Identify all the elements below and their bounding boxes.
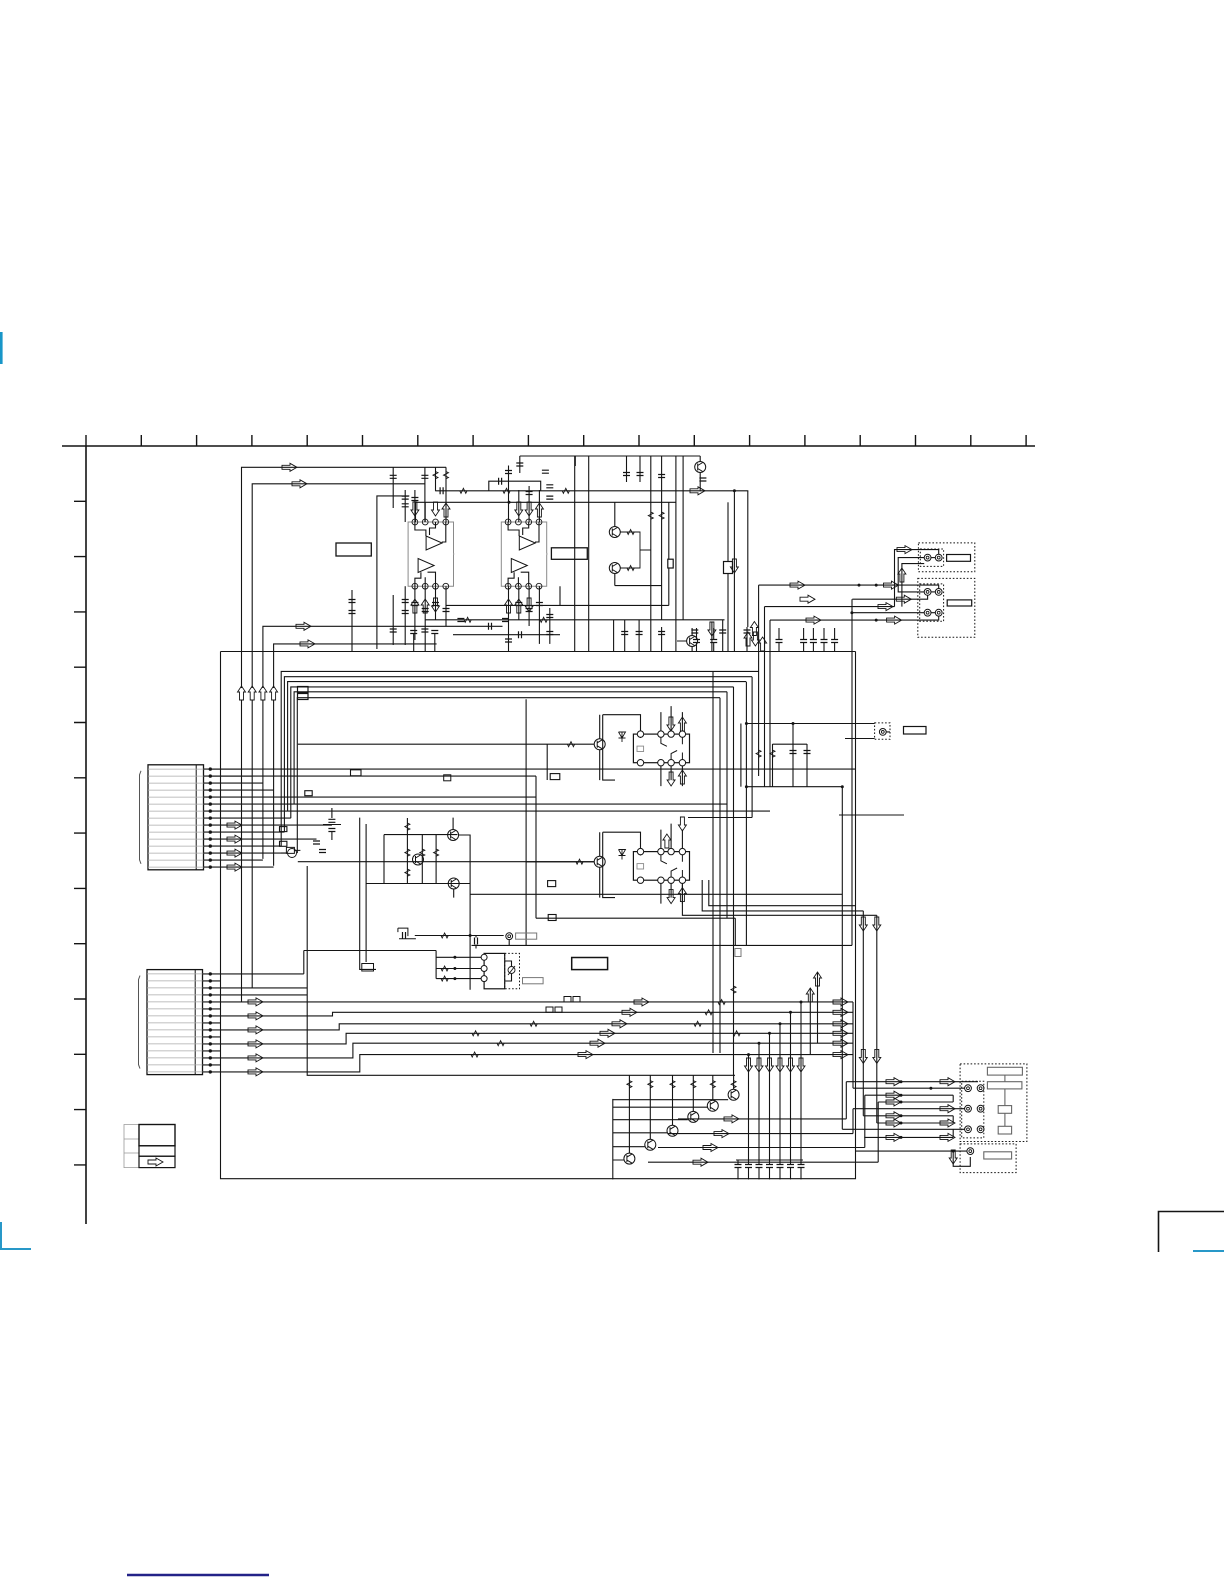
fuse FB1: [298, 687, 309, 693]
transistor Q102: [609, 527, 620, 538]
Qb6 resistor: [731, 1081, 736, 1088]
DRV2 diode: [619, 850, 626, 860]
wire bus4: [291, 687, 734, 818]
wire riser13: [404, 586, 406, 645]
U201 pin top 4: [536, 519, 542, 525]
arrow u c2: [759, 637, 767, 651]
label near CN301: [305, 791, 312, 796]
capacitor Cb18: [502, 619, 509, 622]
pin link CN102b: [931, 612, 935, 614]
label L4: [351, 770, 362, 776]
wire netD v: [862, 911, 864, 1116]
wire riser7: [424, 502, 426, 522]
stair cluster dots: [800, 1001, 803, 1004]
CN501 feeder 864.8: [864, 1095, 866, 1147]
CN501 row 1095.2: [865, 1094, 953, 1096]
feedback loop C: [489, 481, 541, 491]
wire riser11: [538, 490, 540, 522]
DRV2 arrows: [663, 834, 671, 848]
revision table row3: [139, 1156, 175, 1167]
op-amp U201b: [511, 559, 527, 573]
wire VCC top: [520, 455, 700, 457]
resistor R111: [627, 566, 634, 571]
U201 pin bottom 1: [505, 583, 511, 589]
relay DRV1 pin t2: [658, 731, 664, 737]
capacitor C156: [658, 632, 665, 635]
DRV1 diode: [619, 732, 626, 742]
IC IC301 dashed: [505, 953, 520, 988]
wire riser20: [528, 586, 530, 626]
arrow up netC: [898, 568, 906, 582]
capacitor Cbus4: [800, 640, 807, 643]
CN502 wire: [856, 1151, 971, 1166]
CN103 label: [904, 727, 927, 735]
riser up2: [817, 972, 819, 1043]
capacitor Cbus6: [821, 640, 828, 643]
transistor Qb5: [707, 1100, 718, 1111]
wire IN2: [252, 484, 425, 688]
IC301 feeder: [435, 951, 437, 979]
cap bank top bus: [736, 1159, 803, 1161]
IC301 pin3: [481, 976, 487, 982]
capacitor Cb3: [402, 600, 409, 603]
CN501 pin L3: [965, 1126, 972, 1133]
arrow d bus1: [751, 632, 759, 646]
arrow IN1: [282, 463, 297, 471]
CN302 pin dots: [209, 972, 212, 975]
wire mos: [281, 852, 287, 854]
resistor R146: [464, 617, 471, 622]
circuit vert r2: [421, 835, 423, 884]
CN501 row 1137.4: [864, 1136, 953, 1138]
capacitor C155: [636, 632, 643, 635]
arrows at U101 pins: [411, 502, 419, 516]
trunk 746: [745, 682, 747, 946]
wire column C: [668, 502, 670, 559]
wire riser8: [508, 466, 510, 523]
resistor in3: [441, 976, 448, 981]
wire Q102 collector loop: [620, 532, 651, 568]
wire riser9: [518, 490, 520, 522]
ferrite beads row1: [564, 997, 571, 1003]
registration mark cyan bottom-right: [1193, 1250, 1224, 1252]
resistor R147: [540, 617, 547, 622]
arrow row620: [887, 616, 902, 624]
Qb4 resistor: [691, 1081, 696, 1088]
relay DRV1 pin t3: [668, 731, 674, 737]
arrow up IN3: [259, 686, 267, 700]
capacitor Cb11: [505, 639, 512, 642]
wire CL1: [323, 808, 341, 840]
cap bank caps: [735, 1165, 742, 1168]
stair arrow R6: [833, 1051, 848, 1059]
connector CN501 inner: [962, 1081, 984, 1138]
label near CN301 b: [280, 827, 287, 832]
DRV1 loop box: [603, 715, 641, 780]
op-amp U101b: [418, 559, 434, 573]
stair arrows mid: [634, 998, 649, 1006]
arrow u c1: [750, 622, 758, 636]
CN302 arrow 5: [248, 1054, 263, 1062]
DRV2 input wire: [298, 861, 594, 863]
CN501 feeder 878: [877, 1102, 879, 1162]
CN302 arrow 3: [248, 1026, 263, 1034]
registration mark black bottom-right: [1159, 1212, 1224, 1253]
wire vertical IN1 lower: [241, 700, 243, 1002]
arrow netA: [897, 546, 912, 554]
op-amp U101a: [426, 536, 442, 550]
relay DRV1 block: [633, 734, 689, 763]
wire bus6: [297, 698, 720, 853]
trunk 713: [712, 671, 714, 1053]
registration mark cyan bottom-left: [1, 1222, 31, 1249]
capacitor Ct4: [402, 504, 409, 507]
relay DRV1 pin b2: [658, 760, 664, 766]
caps CL1: [328, 819, 335, 822]
CN501 feeder 853: [852, 1109, 854, 1134]
transistor Q303: [448, 878, 459, 889]
arrow a5: [690, 487, 705, 495]
Qb3 resistor: [670, 1081, 675, 1088]
capacitor C146: [489, 623, 492, 630]
arrows at U201 pins: [515, 502, 523, 516]
arrows row585: [884, 581, 899, 589]
connector CN501 box: [960, 1064, 1027, 1142]
dots trunk: [745, 722, 748, 725]
wire drv2 base: [526, 861, 594, 863]
wire IN1: [242, 467, 447, 688]
trunk bus y786: [746, 786, 842, 788]
registration mark cyan left: [0, 332, 3, 364]
relay DRV2 block: [633, 852, 689, 881]
arrow up IN2: [248, 686, 256, 700]
wire right col 734: [733, 491, 735, 652]
IC301 inner wire: [505, 961, 512, 981]
frame left v1: [360, 818, 376, 970]
dot row612: [850, 611, 853, 614]
label L1: [550, 774, 560, 780]
wire riser21: [538, 586, 540, 644]
label reg1: [516, 933, 537, 939]
relay DRV1 pin b3: [668, 760, 674, 766]
CN501 arrows a: [886, 1078, 901, 1086]
wire row 606.6: [765, 606, 895, 608]
fuse FB2: [298, 694, 309, 700]
DRV2 input resistor: [576, 859, 583, 864]
wire below ICs h1: [425, 619, 700, 621]
Qb2 resistor: [648, 1081, 653, 1088]
dot a: [733, 489, 736, 492]
net y935: [415, 935, 504, 937]
CN302 wire r2: [221, 987, 308, 989]
capacitor C143: [440, 487, 443, 494]
riser cap 661: [661, 456, 663, 501]
capacitor Cb12: [515, 603, 522, 606]
U101 pin bottom 3: [433, 583, 439, 589]
wire net B into CN101: [898, 558, 924, 593]
arrow d Q104: [708, 622, 716, 636]
capacitor Cb2: [421, 629, 428, 632]
trunk v 772: [772, 744, 774, 787]
DRV1 collector wire: [599, 715, 601, 780]
transistor Qb1: [624, 1153, 635, 1164]
CN302 signal 6: [221, 1055, 854, 1072]
wire top h4: [416, 501, 676, 503]
bus below DRV2: [536, 917, 735, 919]
net y945: [472, 944, 853, 946]
revision table arrow: [148, 1158, 163, 1166]
wire vert 747: [746, 627, 748, 652]
wire v536: [535, 776, 537, 918]
op-amp IC U101 body: [408, 522, 454, 586]
wire riser22: [549, 608, 551, 644]
wire vert 590: [588, 456, 590, 652]
label box left of U101: [336, 543, 371, 556]
wire riser12: [392, 595, 394, 645]
CN501 row 1108.7: [853, 1108, 965, 1110]
resistor R110: [627, 530, 634, 535]
border ruler top ticks: [86, 435, 1026, 446]
capacitor C151: [431, 631, 438, 634]
Qb2 emitter wire: [649, 1075, 651, 1139]
component box K1: [668, 559, 673, 568]
wire row 592.5: [898, 591, 924, 593]
connector CN301 shell: [140, 771, 142, 864]
wire vertical IN2 lower: [251, 700, 253, 988]
component box K3: [735, 949, 741, 957]
U101 pin bottom 1: [412, 583, 418, 589]
transistor Q104: [687, 636, 698, 647]
CN502 arrow: [949, 1150, 957, 1164]
capacitor Cb10: [349, 611, 356, 614]
single pin connector CN103: [875, 723, 890, 739]
resistor R142: [503, 488, 510, 493]
bus bottom of top section: [221, 651, 856, 653]
relay DRV2 pin t1: [637, 848, 643, 854]
wire K2: [727, 502, 729, 561]
CN103 wire: [845, 732, 890, 739]
wire net A into CN101: [895, 550, 939, 607]
wire drv2 riser: [525, 699, 527, 945]
relay DRV2 pin t3: [668, 848, 674, 854]
capacitor Cb1: [390, 629, 397, 632]
capacitor Cbus1: [693, 640, 700, 643]
wire riser18: [508, 586, 510, 651]
transistor Q302: [413, 854, 424, 865]
CN102 label: [947, 600, 972, 606]
Qb5 resistor: [710, 1081, 715, 1088]
label near CN301 c: [280, 841, 287, 846]
wire riser10: [528, 486, 530, 522]
label L4b: [444, 775, 451, 781]
trunk 727: [726, 692, 728, 918]
connector CN301 pin column: [195, 765, 197, 870]
wire column B: [661, 501, 663, 620]
border ruler left line: [85, 446, 87, 1224]
capacitor Cbus7: [831, 640, 838, 643]
transistor Q101: [695, 462, 706, 473]
stair bottom bus: [307, 866, 735, 1075]
revision table body: [139, 1125, 175, 1146]
arrow up IN4: [270, 686, 278, 700]
board outline bottom-left: [221, 652, 856, 1179]
CN501 pin L2: [965, 1105, 972, 1112]
CN302 wire r3: [221, 994, 308, 996]
trunk 720: [719, 698, 721, 1053]
CN501 corner 1129: [952, 1129, 954, 1137]
wire vertical IN4 lower: [273, 700, 275, 866]
U101 pin top 1: [412, 519, 418, 525]
DRV1 bottom wires: [661, 766, 683, 786]
Qb1 emitter wire: [628, 1075, 630, 1153]
CN501 pin R2: [977, 1105, 984, 1112]
CN501 corner 1115: [952, 1116, 954, 1123]
CN302 signal 2: [221, 1012, 854, 1016]
transistor DRV1 Q: [594, 739, 605, 750]
U101 pin bottom 2: [422, 583, 428, 589]
capacitor Ct10: [526, 492, 533, 495]
capacitor Cb16: [546, 632, 553, 635]
wire net C: [902, 564, 924, 607]
cap at 456 start: [519, 456, 521, 473]
CN501 label 2: [987, 1082, 1022, 1089]
circuit vert r1: [406, 818, 408, 884]
dot row620: [875, 619, 878, 622]
relay DRV1 pin t1: [637, 731, 643, 737]
transistor Q305: [506, 933, 513, 940]
label L2: [548, 881, 556, 887]
IC301 in wires: [436, 957, 481, 978]
DRV1 arrows: [667, 717, 675, 731]
wire 575 drop: [574, 456, 576, 466]
footer navy rule: [127, 1574, 269, 1576]
trunk caps: [790, 751, 797, 754]
CN302 signal 5: [221, 1043, 854, 1058]
CN501 row 1081.7: [846, 1081, 978, 1083]
connector CN302 pin column: [194, 970, 196, 1075]
wire riser4: [414, 490, 416, 522]
CN502 label: [984, 1152, 1012, 1159]
capacitor Cbus3: [776, 640, 783, 643]
op-amp U201a: [519, 536, 535, 550]
CN502 pin: [967, 1148, 974, 1155]
wire 842: [841, 787, 843, 1130]
capacitor C150: [410, 631, 417, 634]
relay DRV2 pin b4: [679, 877, 685, 883]
wire IN4: [274, 644, 437, 688]
IC301 led: [508, 967, 515, 974]
bank base rows: [613, 1100, 728, 1160]
cap bank wires: [737, 1160, 739, 1165]
wire riser2: [424, 467, 426, 522]
wire column E: [675, 456, 677, 652]
riser cap 640: [639, 456, 641, 482]
wire riser5: [435, 467, 437, 491]
relay DRV2 contacts: [661, 855, 683, 877]
connector CN102 inner: [920, 584, 944, 621]
arrow row606: [878, 603, 893, 611]
feeder v852: [851, 599, 853, 945]
bank out arrows: [724, 1115, 739, 1123]
wire column F: [682, 456, 684, 620]
connector CN101 box: [918, 543, 974, 572]
wire 509 drop: [508, 940, 510, 946]
wire below ICs h2: [453, 634, 560, 636]
CN101 label: [947, 555, 971, 562]
wire loop below U201: [446, 586, 560, 605]
DRV1 top wires: [661, 706, 683, 731]
wire vert 722: [722, 620, 724, 652]
transistor Q103: [609, 563, 620, 574]
relay DRV2 pin b1: [637, 877, 643, 883]
wire Q303: [454, 884, 470, 898]
capacitor Cb9: [349, 600, 356, 603]
capacitor Cb4: [402, 611, 409, 614]
resistor R congestion: [731, 986, 736, 993]
U101 pin bottom 4: [443, 583, 449, 589]
wire bus2: [284, 677, 752, 832]
DRV2 bottom wires: [661, 883, 683, 903]
CN301 arrows: [227, 821, 242, 829]
connector CN301 pin rows: [148, 769, 204, 867]
capacitor Cb13: [526, 609, 533, 612]
cluster verticals: [749, 1002, 802, 1160]
U101 pin top 3: [433, 519, 439, 525]
wire seg 815: [839, 814, 904, 816]
capacitor Ct8: [546, 485, 553, 488]
CN501 wire dots: [900, 1080, 903, 1083]
circuit box top: [366, 835, 470, 884]
resistor R143: [562, 488, 569, 493]
Qb6 emitter wire: [733, 1075, 735, 1089]
wire riser17: [445, 586, 447, 626]
CN501 row 1115.8: [863, 1115, 953, 1117]
CN101 pin 2: [935, 554, 942, 561]
CN501 arrows b: [940, 1078, 955, 1086]
caps row above bus: [691, 630, 698, 633]
relay DRV2 pin b3: [668, 877, 674, 883]
U201 pin top 2: [516, 519, 522, 525]
wire Q102 q2: [615, 502, 662, 585]
wire netE v: [876, 915, 878, 1123]
capacitor Ct5: [411, 498, 418, 501]
wire row 585.1: [759, 585, 939, 589]
trunk 740.9: [740, 724, 742, 787]
wire vertical IN3 lower: [262, 700, 264, 859]
resistor R144: [433, 472, 438, 479]
stair arrow R1: [833, 998, 848, 1006]
cap corner symbol: [398, 928, 416, 939]
arrow IN3: [296, 622, 311, 630]
bank out wires: [648, 1119, 878, 1162]
mosfet Q304: [286, 847, 300, 853]
relay DRV2 coil box: [637, 864, 644, 869]
capacitor Cb7: [432, 603, 439, 606]
label box right of U201: [551, 548, 587, 560]
CN102 pin 3: [924, 609, 931, 616]
U101 pin top 2: [422, 519, 428, 525]
wire Q301 c: [453, 818, 470, 843]
CN103 pin: [879, 729, 886, 736]
capacitor Cbus5: [810, 640, 817, 643]
trunk 733.5: [733, 687, 735, 1075]
DRV2 top wires: [661, 824, 683, 849]
connector CN101 inner: [920, 549, 943, 566]
wire bus1: [281, 671, 758, 846]
CN501 row 1088.2: [853, 1087, 965, 1089]
riser up1: [809, 988, 811, 1055]
label frame: [362, 964, 374, 972]
